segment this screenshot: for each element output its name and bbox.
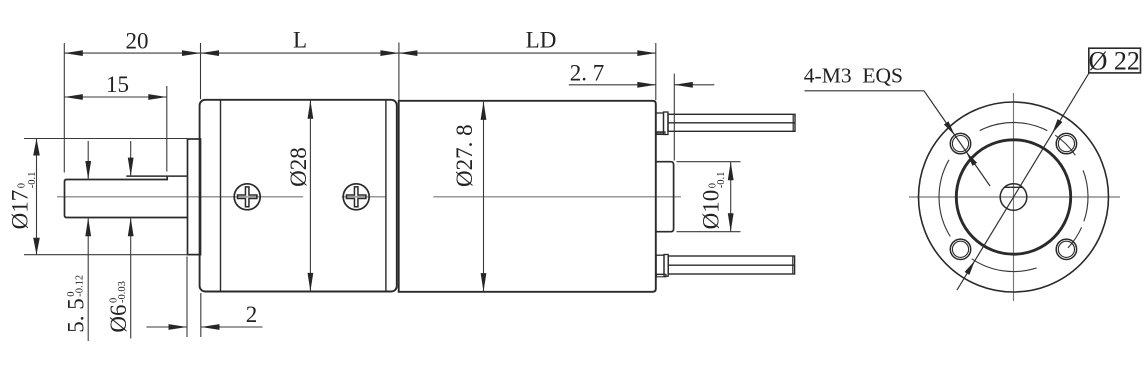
arrow LD left bbox=[399, 50, 418, 56]
arrow 2 left bbox=[169, 324, 188, 330]
extension line boss bottom bbox=[677, 231, 741, 233]
extension line rear boss face bbox=[673, 74, 675, 161]
mounting hole M3 top-left bbox=[950, 133, 970, 153]
extension line at shaft end bbox=[63, 43, 65, 173]
dimension line dia6 lower bbox=[130, 218, 132, 339]
gearbox rear inner line bbox=[385, 101, 387, 291]
dia22 leader line bbox=[957, 73, 1089, 290]
svg-text:2. 7: 2. 7 bbox=[570, 61, 605, 86]
dimension line 2 left part bbox=[146, 326, 187, 328]
callout arrow at hole edge (outside) bbox=[944, 121, 955, 135]
mounting hole M3 top-right bbox=[1056, 133, 1076, 153]
bottom lead wire bbox=[668, 256, 794, 274]
dimension line 5.5 upper bbox=[87, 141, 89, 180]
arrow 15 right bbox=[148, 94, 167, 100]
dia22 arrow lower (points inward) bbox=[965, 261, 975, 275]
dim text 5.5 with tolerance bbox=[64, 275, 89, 333]
extension line flange top bbox=[24, 138, 188, 140]
svg-text:Ø 22: Ø 22 bbox=[1089, 46, 1140, 75]
arrow dia28 down bbox=[308, 273, 314, 292]
extension line flange bottom bbox=[24, 254, 188, 256]
motor body (diameter 27.8) bbox=[399, 101, 656, 292]
arrow 2.7 right bbox=[674, 82, 693, 88]
front pilot circle (bold, gearbox boss) bbox=[956, 140, 1070, 254]
bolt circle arc S bbox=[972, 259, 1037, 272]
svg-text:2: 2 bbox=[246, 302, 258, 327]
arrow 15 left bbox=[64, 94, 83, 100]
bolt circle arc E bbox=[1083, 170, 1088, 221]
dimension line dia10 bbox=[730, 162, 732, 232]
svg-text:Ø17: Ø17 bbox=[8, 190, 33, 230]
front view horizontal centerline bbox=[909, 196, 1120, 198]
svg-text:0: 0 bbox=[17, 183, 28, 188]
extension line flange left lower bbox=[186, 257, 188, 338]
front view vertical centerline bbox=[1013, 93, 1015, 301]
arrow dia17 up bbox=[33, 139, 40, 156]
bolt circle arc W bbox=[939, 160, 950, 237]
dimension line dia28 bbox=[309, 101, 311, 292]
dimension line 2 right part bbox=[201, 326, 263, 328]
arrow L right bbox=[380, 50, 399, 56]
gearbox body (diameter 28) bbox=[200, 100, 397, 292]
dimension line dia6 upper bbox=[130, 141, 132, 176]
arrow dia10 down bbox=[728, 213, 734, 232]
arrow 20 right bbox=[182, 50, 201, 56]
arrow dia17 down bbox=[33, 238, 40, 255]
gearbox front plate inner line bbox=[220, 101, 222, 291]
arrow dia28 up bbox=[308, 100, 314, 119]
svg-text:Ø28: Ø28 bbox=[286, 147, 311, 187]
extension line flat end bbox=[166, 86, 168, 172]
dimension line 20/L/LD chain bbox=[64, 52, 656, 54]
dia22 arrow upper (points inward) bbox=[1052, 119, 1062, 133]
arrow 5.5 down-to-flat bbox=[85, 161, 91, 180]
front outer circle (motor flange) bbox=[919, 102, 1109, 292]
arrow dia10 up bbox=[728, 162, 734, 181]
extension line gearbox face lower bbox=[200, 293, 202, 337]
bolt circle arc N bbox=[980, 122, 1048, 130]
screw S1 (phillips head) bbox=[234, 184, 260, 210]
svg-text:Ø27. 8: Ø27. 8 bbox=[452, 124, 477, 187]
dimension line 15 bbox=[64, 96, 167, 98]
extension line at gearbox face bbox=[200, 43, 202, 99]
svg-text:-0.03: -0.03 bbox=[117, 281, 128, 303]
top lead wire bbox=[668, 114, 795, 131]
svg-text:Ø10: Ø10 bbox=[699, 190, 724, 230]
dim text dia17 with tolerance bbox=[8, 172, 39, 230]
dia22 framed label box bbox=[1089, 48, 1141, 73]
callout arrow at hole edge (inside) bbox=[966, 152, 977, 166]
dim text dia6 with tolerance bbox=[106, 281, 131, 332]
front shaft circle with D-flat bbox=[1000, 184, 1027, 211]
svg-text:-0.1: -0.1 bbox=[27, 172, 38, 189]
extension line boss top bbox=[677, 161, 741, 163]
arrow L left bbox=[201, 50, 220, 56]
rear bearing boss (diameter 10) bbox=[656, 162, 674, 232]
arrow 5.5 up-to-bottom bbox=[85, 218, 91, 237]
dimension line dia27.8 bbox=[483, 102, 485, 292]
dim text dia10 with tolerance bbox=[699, 172, 728, 230]
arrow dia6 up-to-bottom bbox=[128, 218, 134, 237]
svg-text:Ø6: Ø6 bbox=[106, 305, 131, 333]
dimension line 2.7 left part bbox=[569, 84, 656, 86]
extension line at motor front face bbox=[398, 43, 400, 101]
dimension line 5.5 lower bbox=[87, 218, 89, 341]
svg-text:-0.12: -0.12 bbox=[75, 275, 86, 297]
arrow dia27.8 down bbox=[481, 273, 487, 292]
svg-text:L: L bbox=[293, 28, 307, 53]
mounting hole M3 bottom-right bbox=[1056, 239, 1076, 259]
dimension line 2.7 right part bbox=[674, 84, 714, 86]
svg-text:15: 15 bbox=[106, 72, 129, 97]
centerline segment 3 bbox=[433, 196, 681, 198]
callout underline bbox=[805, 90, 925, 92]
callout leader line bbox=[924, 91, 990, 186]
bottom terminal block bbox=[656, 255, 664, 274]
dimension line dia17 bbox=[36, 139, 38, 255]
bolt circle dash through hole BR bbox=[1068, 227, 1082, 248]
shaft (D-cut, flat on top) bbox=[126, 175, 188, 177]
arrow LD right bbox=[637, 50, 656, 56]
svg-text:20: 20 bbox=[126, 29, 149, 54]
mounting hole M3 bottom-left bbox=[950, 239, 970, 259]
top terminal block bbox=[656, 113, 664, 133]
svg-text:5. 5: 5. 5 bbox=[64, 298, 89, 333]
extension line at motor rear face bbox=[655, 43, 657, 100]
flange (2mm mounting plate) bbox=[188, 139, 201, 255]
arrow 2 right bbox=[201, 324, 220, 330]
svg-text:LD: LD bbox=[526, 28, 557, 53]
arrow dia6 down-to-top bbox=[128, 158, 134, 177]
centerline segment 2 bbox=[342, 196, 386, 198]
arrow dia27.8 up bbox=[481, 101, 487, 120]
arrow 2.7 left bbox=[637, 82, 656, 88]
arrow 20 left bbox=[64, 50, 83, 56]
svg-text:-0.1: -0.1 bbox=[716, 172, 727, 189]
centerline (side view axis) segment 1 bbox=[57, 196, 303, 198]
screw S2 (phillips head) bbox=[343, 184, 369, 210]
svg-text:4-M3 EQS: 4-M3 EQS bbox=[804, 64, 903, 88]
bolt circle dash through hole TR bbox=[1055, 135, 1075, 155]
